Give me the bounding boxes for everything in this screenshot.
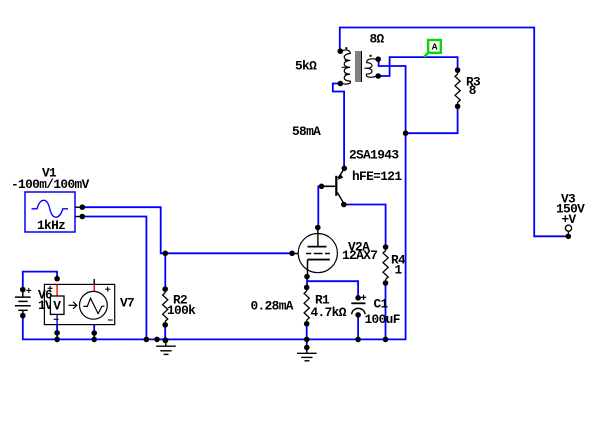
svg-text:12AX7: 12AX7 (342, 248, 377, 263)
svg-text:58mA: 58mA (292, 124, 321, 139)
V7 V-sense box (50, 296, 64, 314)
transformer T1 secondary cusp tick (364, 67, 368, 69)
wire C1 bottom to rail (357, 315, 359, 340)
svg-text:1kHz: 1kHz (37, 218, 65, 233)
svg-text:2SA1943: 2SA1943 (349, 148, 399, 163)
ground under R2 (156, 340, 176, 354)
svg-text:1: 1 (395, 263, 403, 278)
battery V6 plus sign (26, 288, 31, 293)
wire R3 bottom to junction (406, 106, 458, 133)
wire transistor base to tube plate (318, 186, 321, 227)
svg-text:5kΩ: 5kΩ (295, 59, 317, 74)
wire grid node down to R2 (164, 253, 166, 289)
transistor Q1 2SA1943 (322, 169, 344, 204)
wire battery top to V7 input (23, 272, 57, 290)
wire R1 bottom to rail (306, 324, 308, 340)
svg-text:-100m/100mV: -100m/100mV (11, 177, 90, 192)
resistor R3 (455, 70, 460, 106)
wire R4 bottom to ground rail (385, 283, 387, 339)
wire primary bottom to transistor emitter (333, 84, 344, 169)
wire top rail from transformer primary to V3 (340, 28, 569, 237)
wire R1 rail to ground stub (306, 339, 308, 347)
resistor R2 (163, 289, 168, 325)
V7 output red lead (93, 284, 95, 292)
V7 plus minus marks (48, 286, 113, 320)
tube plate (308, 229, 327, 247)
tube cathode (308, 260, 330, 276)
transformer T1 secondary phase dot (370, 55, 372, 57)
wire V1 minus output down to ground rail (82, 217, 146, 340)
V7 waveform symbol (83, 298, 104, 313)
svg-text:8Ω: 8Ω (370, 32, 385, 47)
transformer T1 primary phase dot (345, 47, 347, 49)
wire cathode node to C1 top (307, 281, 358, 298)
capacitor C1 top plate (351, 302, 365, 304)
wire R2 bottom to rail (164, 325, 166, 340)
voltage source V1 box (25, 192, 75, 232)
battery V6 (15, 290, 31, 316)
resistor R1 (304, 287, 309, 323)
transistor Q1 emitter arrowhead (PNP) (338, 174, 344, 180)
V1 terminal stubs (75, 206, 80, 208)
resistor R4 (383, 247, 388, 283)
svg-text:V7: V7 (120, 296, 134, 311)
svg-text:0.28mA: 0.28mA (251, 299, 294, 314)
svg-text:V: V (53, 298, 61, 313)
V7 arrow (69, 302, 77, 309)
wire V7 input minus to rail (56, 324, 58, 339)
svg-text:100uF: 100uF (365, 312, 400, 327)
svg-text:4.7kΩ: 4.7kΩ (311, 305, 347, 320)
svg-text:C1: C1 (374, 297, 389, 312)
V7 plus output pin tick (93, 279, 95, 284)
V7 input red lead (56, 284, 58, 296)
svg-text:hFE=121: hFE=121 (352, 169, 402, 184)
V7 blue lead below V box (56, 314, 58, 324)
vacuum tube V2A 12AX7 envelope (298, 234, 337, 273)
transformer T1 core (356, 51, 362, 82)
V7 source circle (80, 291, 108, 319)
wire transistor collector to R4 (344, 205, 386, 248)
node A callout green box (424, 40, 441, 57)
wire secondary top terminal down to bottom rail (23, 59, 406, 339)
V3 +V terminal circle (565, 225, 571, 231)
capacitor C1 plus sign (361, 295, 366, 300)
transformer T1 primary winding 5k (342, 50, 351, 84)
svg-text:A: A (432, 42, 438, 53)
svg-text:8: 8 (469, 83, 476, 98)
transformer T1 secondary winding 8ohm (366, 59, 376, 77)
wire secondary bottom terminal to node A / R3 top (378, 57, 457, 76)
capacitor C1 curved bottom plate (352, 308, 366, 314)
V1 sine symbol (32, 200, 69, 217)
wire V7 output minus to rail (93, 319, 95, 340)
tube grid (dashed) (294, 253, 330, 255)
transformer T1 primary winding cusp ticks (342, 60, 348, 74)
controlled source V7 outer box (44, 284, 114, 324)
wire tube cathode to R1 top (306, 277, 308, 288)
ground under R1 (297, 348, 317, 361)
wire V1 plus output to grid node (82, 207, 292, 253)
svg-text:100k: 100k (167, 303, 196, 318)
svg-text:+V: +V (562, 212, 577, 227)
